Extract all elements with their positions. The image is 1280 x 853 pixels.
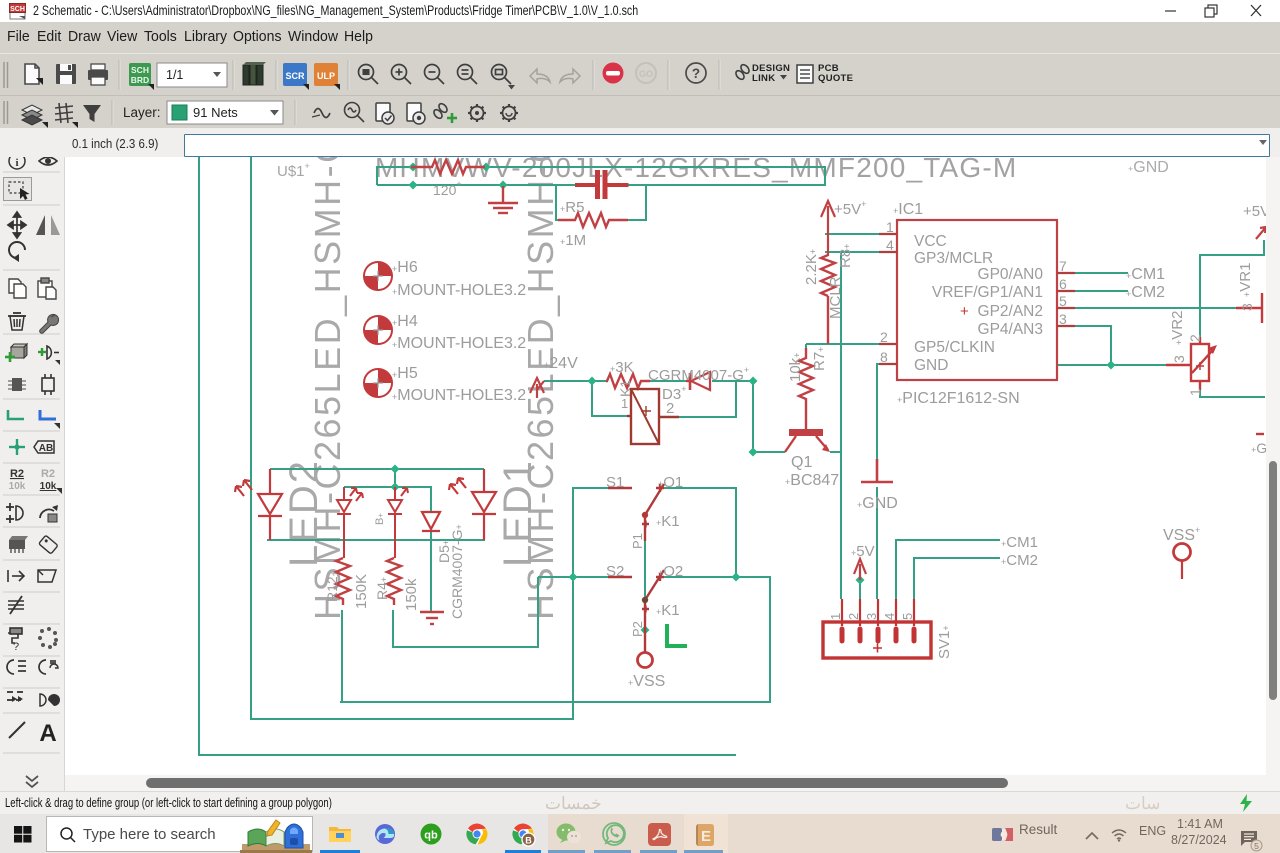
zoom icons <box>359 65 512 85</box>
svg-text:LINK: LINK <box>752 73 775 84</box>
mag sine <box>345 103 365 123</box>
small LED B <box>388 487 408 558</box>
svg-text:+VR2: +VR2 <box>1169 311 1186 345</box>
svg-text:3: 3 <box>864 613 879 620</box>
svg-text:LED2: LED2 <box>282 459 326 567</box>
svg-text:SCH: SCH <box>10 6 25 13</box>
mount hole H6 <box>364 262 392 290</box>
wire frame left inner vertical <box>250 157 252 719</box>
wire +5V top right <box>1200 240 1264 338</box>
trash / wrench <box>8 313 26 330</box>
svg-text:+3K: +3K <box>610 359 634 376</box>
supply +5V arrow top <box>821 201 835 256</box>
svg-text:8: 8 <box>880 349 888 365</box>
window buttons <box>1160 0 1280 22</box>
small LED A <box>337 487 363 558</box>
link plus <box>432 102 448 120</box>
wire R12 down <box>341 610 343 702</box>
svg-text:+VR1: +VR1 <box>1237 263 1254 297</box>
svg-text:150k: 150k <box>403 578 420 611</box>
svg-text:B+: B+ <box>374 513 386 525</box>
svg-text:P2: P2 <box>630 621 645 637</box>
transistor Q1 BC847 <box>785 425 830 452</box>
group select (active) <box>4 178 32 201</box>
svg-text:R8+: R8+ <box>837 244 854 268</box>
resistor R7 10k <box>799 348 813 425</box>
supply VSS ring right <box>1174 544 1191 561</box>
svg-text:E: E <box>701 828 711 845</box>
svg-text:+O1: +O1 <box>658 474 683 491</box>
svg-text:VREF/GP1/AN1: VREF/GP1/AN1 <box>932 284 1043 301</box>
LED2 <box>235 469 282 540</box>
svg-text:3: 3 <box>1171 355 1187 363</box>
expander <box>26 776 38 787</box>
ground symbol GND near IC <box>861 459 893 482</box>
move / mirror <box>8 212 26 238</box>
resistor 120 <box>411 160 485 174</box>
grid icon <box>55 103 73 123</box>
wire 24V net <box>544 380 606 382</box>
svg-text:+K1: +K1 <box>656 602 680 619</box>
svg-text:MCLR: MCLR <box>827 276 844 319</box>
separators <box>3 172 60 753</box>
svg-text:+CM1: +CM1 <box>1126 266 1165 283</box>
dashes / drc <box>7 692 23 700</box>
mount hole H5 <box>364 369 392 397</box>
svg-text:+CM1: +CM1 <box>1001 534 1038 551</box>
svg-text:GP0/AN0: GP0/AN0 <box>978 266 1044 283</box>
svg-text:2: 2 <box>880 329 888 345</box>
resistor R8 2.2K <box>821 255 835 344</box>
chip / tag <box>9 536 28 553</box>
wire IC pin4 down to SV1 pin1 <box>840 252 842 599</box>
wire R5 loop <box>556 185 559 220</box>
stop <box>603 63 624 84</box>
info <box>9 153 25 169</box>
cmd / polygon <box>8 570 24 582</box>
svg-text:+CM2: +CM2 <box>1126 284 1165 301</box>
svg-text:VSS+: VSS+ <box>1163 525 1200 544</box>
svg-text:150K: 150K <box>353 574 370 609</box>
svg-text:1: 1 <box>1187 388 1203 396</box>
wire mid bottom horizontal <box>340 701 771 703</box>
help <box>686 63 706 83</box>
wire top net Y2 <box>377 184 575 186</box>
wire D3 to junction <box>712 380 754 382</box>
books <box>243 62 266 85</box>
svg-text:3: 3 <box>1239 303 1255 311</box>
errors pair <box>7 660 46 674</box>
save floppy <box>56 64 76 84</box>
svg-text:3: 3 <box>1059 311 1067 327</box>
LED1 <box>449 469 496 540</box>
print <box>88 64 108 85</box>
svg-text:R2: R2 <box>41 468 55 480</box>
row: info / eye (y centers relative: canvas top=157; row1 center 160-157=3 => shift: draw at y=3) <box>4 153 63 787</box>
go ghost <box>636 63 656 83</box>
wire top net Y1 <box>377 167 411 185</box>
wire K1 coil pin2 <box>679 381 736 417</box>
wire O1 net <box>664 488 736 577</box>
SCR <box>283 63 307 86</box>
svg-text:CGRM4007-G+: CGRM4007-G+ <box>449 524 465 619</box>
svg-text:5: 5 <box>1059 293 1067 309</box>
eye <box>39 157 57 165</box>
wire GND to SV1 pin3 <box>876 487 878 599</box>
svg-text:+IC1: +IC1 <box>893 201 923 218</box>
svg-text:120+: 120+ <box>433 179 462 198</box>
wire D5 top lead <box>430 487 432 512</box>
svg-text:+GND: +GND <box>857 495 898 512</box>
svg-text:+MOUNT-HOLE3.2: +MOUNT-HOLE3.2 <box>392 282 526 299</box>
svg-text:10k: 10k <box>40 481 57 492</box>
trimmer VR2 <box>1166 337 1217 390</box>
ULP <box>314 63 338 86</box>
svg-text:4: 4 <box>882 613 897 620</box>
svg-text:+GND: +GND <box>1128 159 1169 176</box>
wire IC pin6 CM2 <box>1074 290 1128 292</box>
svg-text:+K1: +K1 <box>656 513 680 530</box>
svg-text:+CM2: +CM2 <box>1001 552 1038 569</box>
svg-text:+G: +G <box>1251 440 1266 456</box>
wire LED bottom rail <box>267 539 485 541</box>
smash / miter <box>6 503 14 523</box>
supply +24V arrow <box>530 378 544 398</box>
svg-text:GP3/MCLR: GP3/MCLR <box>914 250 993 267</box>
split <box>8 596 24 614</box>
svg-text:Q1: Q1 <box>791 454 812 471</box>
svg-text:+24V: +24V <box>544 355 578 372</box>
rotate <box>9 242 25 258</box>
layers icon <box>22 105 42 125</box>
wire IC pin4 <box>825 251 881 253</box>
svg-text:+VSS: +VSS <box>628 673 665 690</box>
svg-text:5: 5 <box>1254 841 1259 851</box>
pcb quote <box>797 65 813 83</box>
wire MCLR net <box>806 343 881 345</box>
svg-text:SCR: SCR <box>285 71 305 81</box>
junction / label <box>9 439 25 455</box>
copy / paste <box>9 279 26 298</box>
wire IC pin1 <box>825 233 881 235</box>
wire junction to Q1 <box>752 381 754 452</box>
wire K1 coil pin1 <box>592 381 627 416</box>
switch contact S1/O1 <box>608 484 664 541</box>
svg-text:?: ? <box>13 641 19 653</box>
svg-text:LED1: LED1 <box>496 459 540 567</box>
roller / ratsnest <box>8 628 22 653</box>
svg-text:2: 2 <box>846 613 861 620</box>
svg-text:Layer:: Layer: <box>123 105 161 120</box>
net / bus <box>8 410 24 419</box>
net stub symbol (green L) <box>667 624 687 646</box>
relay coil K1 <box>627 389 679 444</box>
wire LED mid rail <box>394 469 396 487</box>
svg-text:S1: S1 <box>606 474 624 491</box>
svg-text:CGRM4007-G+: CGRM4007-G+ <box>648 365 749 384</box>
SCH/BRD <box>129 63 154 90</box>
svg-text:+5V: +5V <box>851 543 875 560</box>
wire CM2 to SV1 pin5 <box>914 558 1000 599</box>
svg-text:2.2K+: 2.2K+ <box>803 249 820 285</box>
svg-text:2: 2 <box>1187 334 1203 342</box>
app icon <box>9 3 28 20</box>
svg-text:R4+: R4+ <box>374 577 390 600</box>
svg-text:S2: S2 <box>606 563 624 580</box>
sine <box>314 109 330 118</box>
svg-text:91 Nets: 91 Nets <box>193 105 238 120</box>
svg-text:+5V: +5V <box>1243 203 1266 220</box>
svg-text:GND: GND <box>914 357 948 374</box>
resistor R9 3K <box>606 374 650 388</box>
wire S2 net <box>538 576 609 578</box>
switch contact S2/O2 <box>608 570 664 652</box>
add part / pinswap <box>5 344 27 362</box>
svg-text:GP4/AN3: GP4/AN3 <box>978 321 1043 338</box>
connector SV1 <box>823 599 931 658</box>
ground symbol under D5 (earth) <box>420 612 444 624</box>
svg-text:?: ? <box>692 66 700 81</box>
svg-text:+MOUNT-HOLE3.2: +MOUNT-HOLE3.2 <box>392 387 526 404</box>
tray <box>992 828 1013 841</box>
wire +5V to SV1 pin2 <box>859 578 861 599</box>
svg-text:U$1+: U$1+ <box>277 161 310 180</box>
diode D5 <box>422 512 440 531</box>
line / text <box>9 722 25 738</box>
svg-text:2: 2 <box>666 400 674 417</box>
name / value <box>9 468 57 492</box>
wire VR2 pin3 net <box>1057 364 1166 366</box>
svg-text:1: 1 <box>621 396 628 411</box>
wire D5 to ground <box>430 532 432 611</box>
cortana-ish desk icons over search edge <box>240 814 316 853</box>
svg-text:B: B <box>525 836 532 846</box>
svg-text:+1M: +1M <box>560 232 586 249</box>
windows logo <box>14 826 32 843</box>
svg-text:+H6: +H6 <box>392 259 418 276</box>
svg-text:GO: GO <box>639 69 653 79</box>
svg-text:ULP: ULP <box>317 71 335 81</box>
active app underlines <box>320 850 360 853</box>
svg-text:SV1+: SV1+ <box>936 625 953 659</box>
svg-text:R2: R2 <box>10 468 24 480</box>
wire IC pin5 to VR1 <box>1074 307 1236 309</box>
smd / gate <box>8 378 26 391</box>
supply +5V arrow mid <box>854 559 866 580</box>
wire VR2 pin1 <box>1200 390 1265 397</box>
junction dots <box>409 163 418 172</box>
svg-text:i: i <box>15 157 18 169</box>
IC U1 PIC12F1612 <box>879 220 1075 380</box>
taskbar app icons <box>328 823 352 845</box>
sheet combo <box>157 63 227 87</box>
design link <box>734 63 750 81</box>
ground symbol top (earth) <box>488 186 518 213</box>
erc icons <box>376 103 425 124</box>
svg-text:1: 1 <box>828 613 843 620</box>
capacitor C1 <box>575 170 629 199</box>
svg-text:P1: P1 <box>630 533 645 549</box>
wire CM1 to SV1 pin4 <box>896 540 1000 599</box>
wire IC pin7 CM1 <box>1074 272 1128 274</box>
svg-text:+H4: +H4 <box>392 313 418 330</box>
svg-text:BRD: BRD <box>131 75 149 85</box>
wire frame left outer vertical <box>198 157 1265 755</box>
svg-text:GP2/AN2: GP2/AN2 <box>978 303 1043 320</box>
wire S1 net <box>573 488 609 577</box>
new/open icon <box>25 64 39 84</box>
svg-text:SCH: SCH <box>131 65 149 75</box>
svg-text:5: 5 <box>900 613 915 620</box>
svg-text:10k+: 10k+ <box>787 353 804 382</box>
svg-text:MHMVWV-200JLX-12GKRES_MMF200_T: MHMVWV-200JLX-12GKRES_MMF200_TAG-M <box>375 157 1017 183</box>
wire IC pin3 <box>1074 326 1111 365</box>
funnel <box>83 105 101 122</box>
svg-text:+PIC12F1612-SN: +PIC12F1612-SN <box>897 390 1020 407</box>
svg-text:R7+: R7+ <box>811 347 828 371</box>
svg-text:+: + <box>960 303 969 320</box>
mount hole H4 <box>364 316 392 344</box>
wire R4 down <box>393 577 538 647</box>
svg-text:4: 4 <box>886 237 894 253</box>
wire bottom outer horizontal <box>198 754 736 756</box>
svg-text:1/1: 1/1 <box>166 68 183 82</box>
undo/redo ghost <box>530 69 580 83</box>
svg-text:+5V+: +5V+ <box>834 199 866 218</box>
svg-text:A: A <box>39 720 56 747</box>
layer combo <box>167 101 283 124</box>
svg-text:+O2: +O2 <box>658 563 683 580</box>
svg-text:AB: AB <box>39 443 53 454</box>
svg-text:GP5/CLKIN: GP5/CLKIN <box>914 339 995 356</box>
gears <box>468 104 518 122</box>
resistor R5 <box>558 213 628 227</box>
wire bottom inner horizontal <box>250 718 574 720</box>
diode D3 CGRM4007-G <box>686 372 710 390</box>
svg-text:10k: 10k <box>9 481 26 492</box>
wire O2 right vertical <box>769 577 771 702</box>
svg-text:+H5: +H5 <box>392 365 418 382</box>
resistor R4 <box>387 558 401 605</box>
svg-text:qb: qb <box>424 830 438 842</box>
svg-text:7: 7 <box>1059 258 1067 274</box>
trimmer VR1 (partially visible) <box>1236 293 1264 434</box>
svg-text:VCC: VCC <box>914 233 947 250</box>
svg-text:+R5: +R5 <box>560 199 584 216</box>
resistor R12 <box>336 558 350 605</box>
supply VSS ring bottom <box>638 653 653 668</box>
wire LED top rail <box>270 468 484 470</box>
svg-text:QUOTE: QUOTE <box>818 73 853 84</box>
svg-text:+MOUNT-HOLE3.2: +MOUNT-HOLE3.2 <box>392 335 526 352</box>
svg-text:6: 6 <box>1059 276 1067 292</box>
supply arrow +5V top right (clipped) <box>1256 227 1266 239</box>
svg-text:1: 1 <box>886 219 894 235</box>
wire IC pin8 GND <box>877 364 881 459</box>
svg-text:+BC847: +BC847 <box>785 472 839 489</box>
